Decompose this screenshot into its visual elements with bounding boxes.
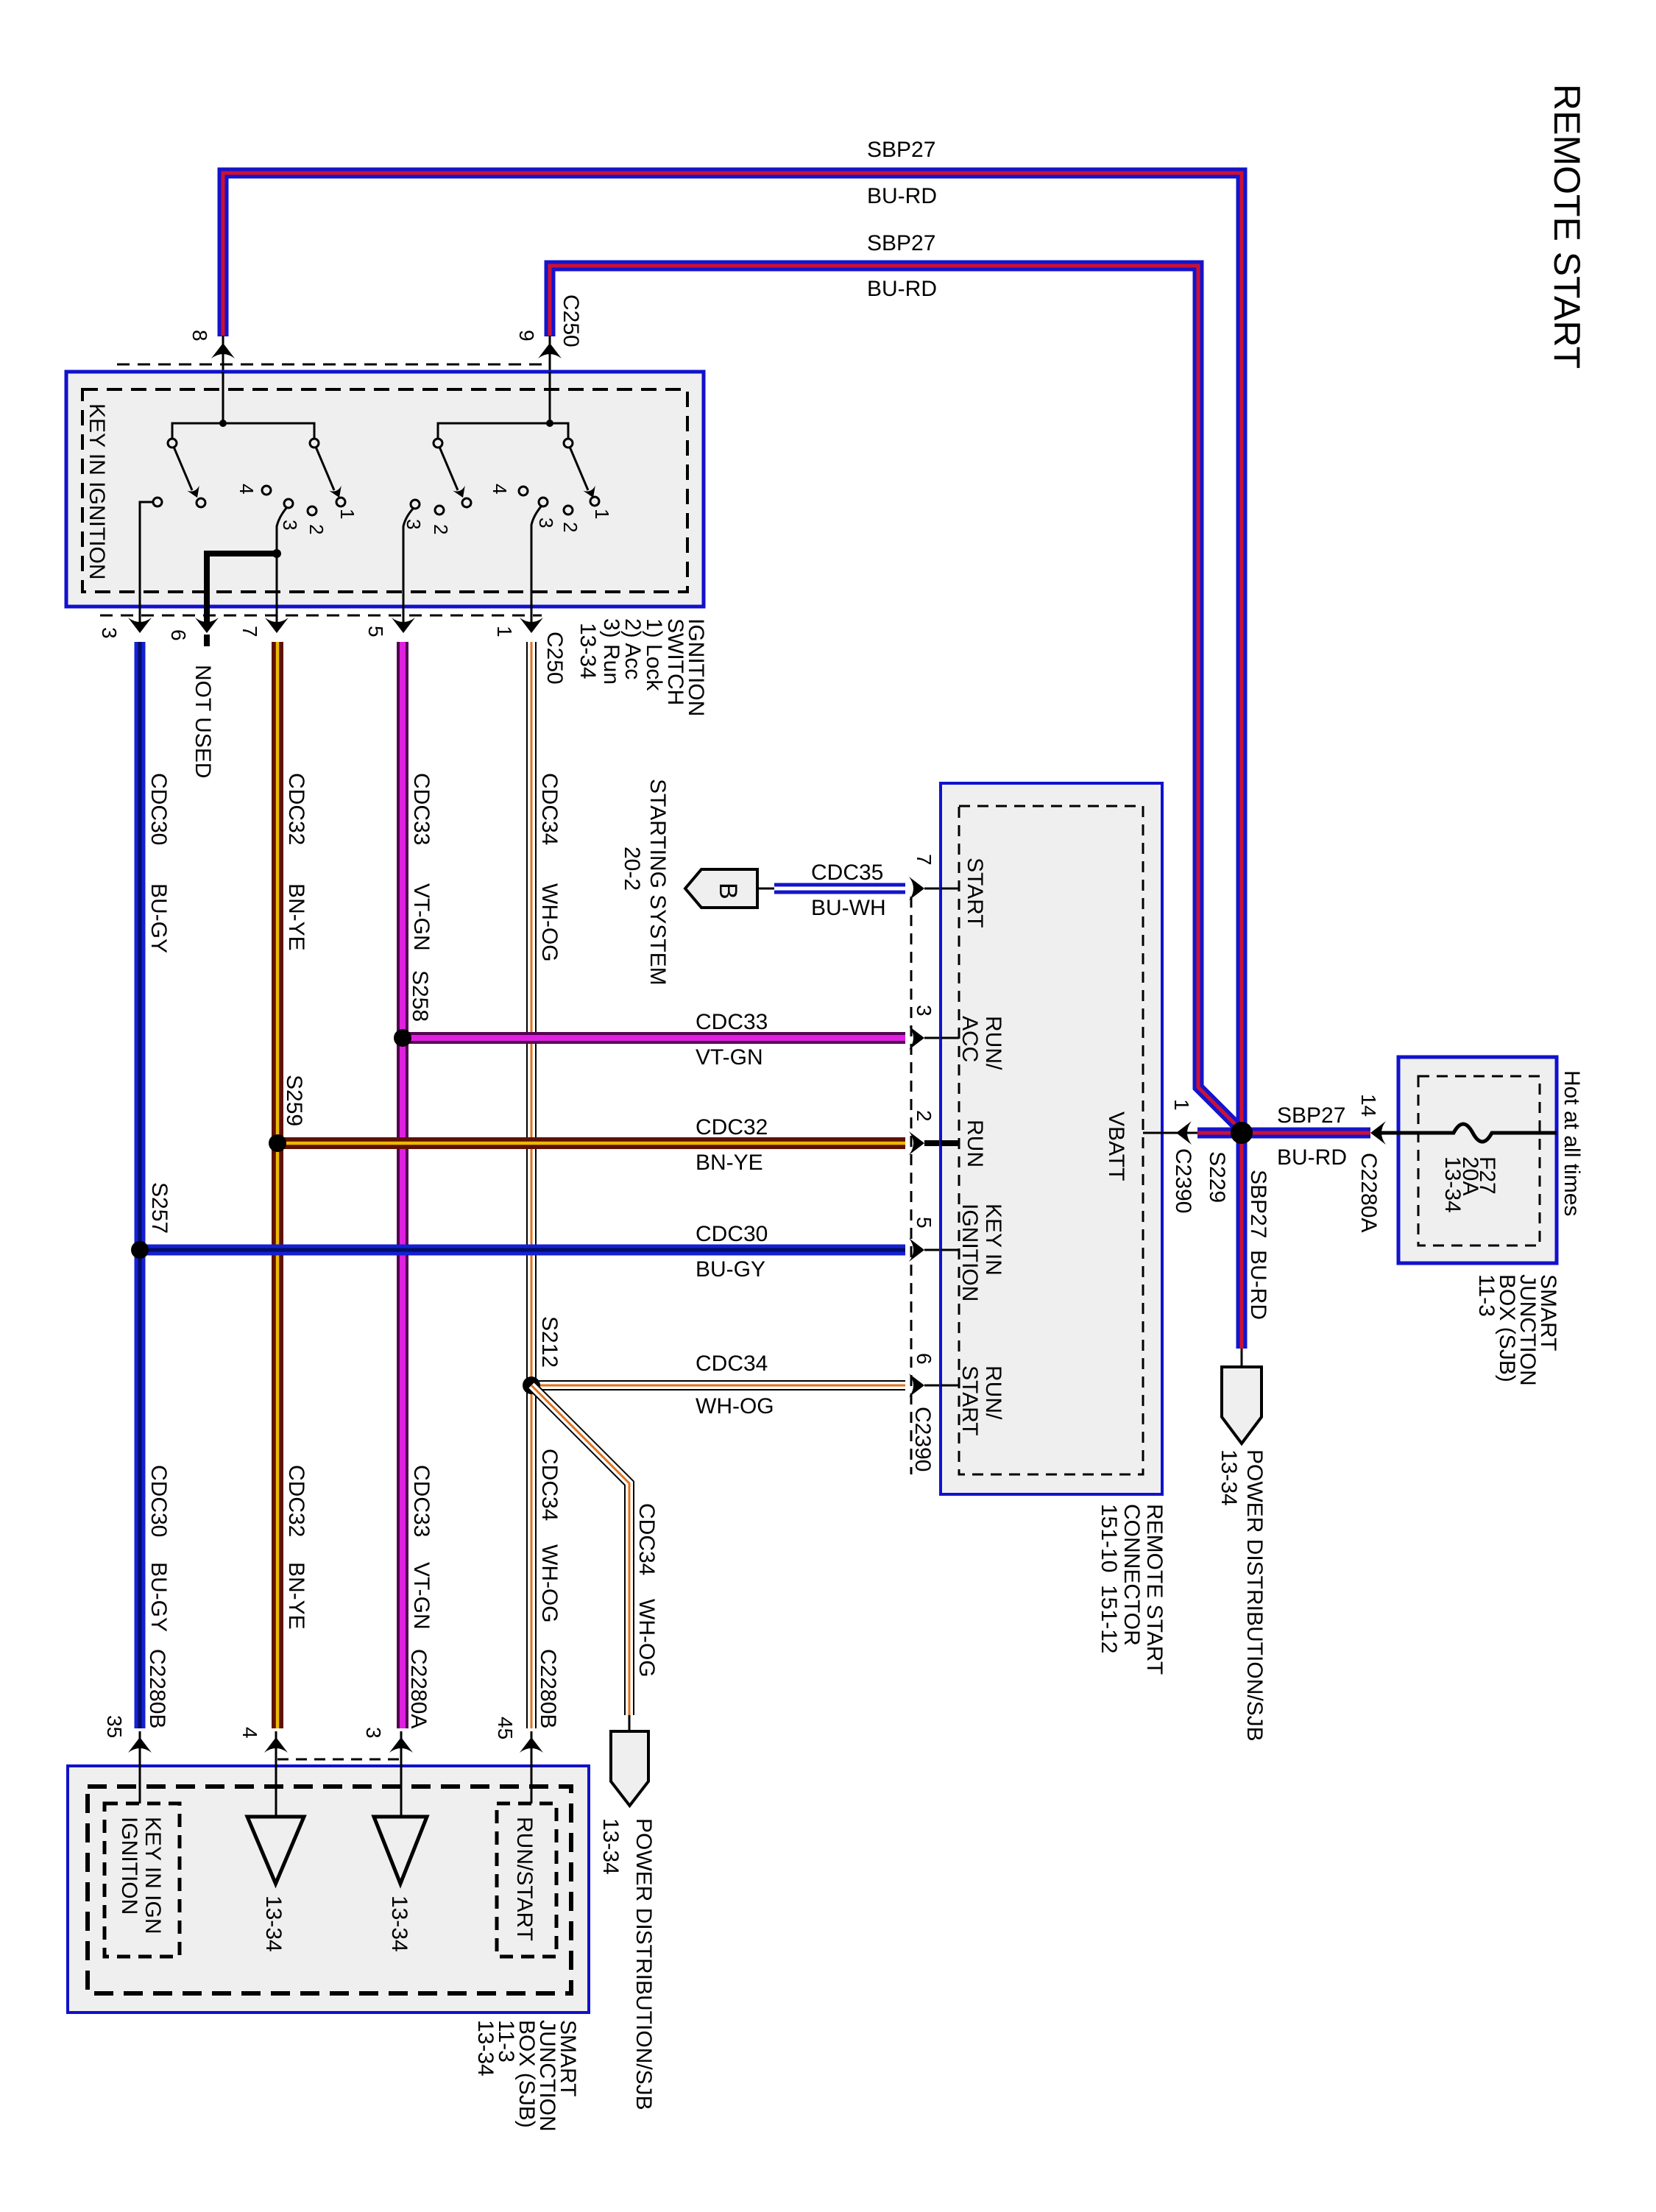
svg-text:S229: S229 — [1205, 1151, 1229, 1203]
svg-text:2: 2 — [430, 524, 452, 534]
svg-text:S212: S212 — [537, 1316, 562, 1368]
svg-text:S257: S257 — [147, 1182, 171, 1234]
svg-text:14: 14 — [1357, 1094, 1380, 1117]
pin 45 lead — [531, 1731, 533, 1803]
svg-text:KEY IN IGNITION: KEY IN IGNITION — [85, 403, 109, 580]
pin 6 arrow — [195, 618, 219, 633]
svg-text:CDC32: CDC32 — [284, 1465, 308, 1537]
pin 3 lead — [924, 1037, 959, 1039]
svg-text:7: 7 — [238, 626, 261, 637]
svg-text:S258: S258 — [408, 970, 432, 1022]
svg-text:S259: S259 — [282, 1075, 306, 1126]
svg-text:BU-GY: BU-GY — [696, 1257, 765, 1282]
svg-text:4: 4 — [489, 484, 511, 494]
splice S257 — [131, 1241, 149, 1259]
svg-text:CDC32: CDC32 — [284, 773, 308, 845]
svg-text:BU-GY: BU-GY — [146, 883, 171, 953]
pin 9 lead (inside box) — [549, 372, 551, 423]
bus 1 tap node — [219, 420, 227, 427]
NOT USED thick wire — [207, 554, 277, 628]
wire CDC35 BU-WH — [774, 883, 905, 894]
KEY IN IGN sub-box — [105, 1803, 180, 1957]
pin 5 arrow (connector) — [909, 1238, 924, 1262]
pin 3 lead (bottom) — [400, 1731, 403, 1817]
wire CDC30 horizontal — [140, 1245, 905, 1256]
svg-text:13-34: 13-34 — [598, 1818, 623, 1875]
pin 8 lead — [222, 336, 224, 423]
svg-text:3: 3 — [279, 520, 301, 530]
svg-text:C250: C250 — [542, 632, 567, 685]
svg-text:CDC34: CDC34 — [696, 1351, 768, 1376]
svg-text:REMOTE START: REMOTE START — [1142, 1504, 1167, 1675]
pin 6 arrow (connector) — [909, 1374, 924, 1397]
svg-text:START: START — [963, 858, 987, 928]
svg-text:5: 5 — [913, 1217, 935, 1229]
wafer 3 pivot — [434, 439, 442, 448]
svg-text:BN-YE: BN-YE — [284, 1562, 308, 1630]
svg-text:ACC: ACC — [958, 1016, 982, 1062]
svg-text:1: 1 — [591, 509, 613, 519]
splice S229 — [1231, 1122, 1253, 1144]
svg-text:7: 7 — [913, 854, 935, 866]
connector B flag — [685, 869, 757, 908]
svg-text:13-34: 13-34 — [576, 623, 600, 679]
wafer 4 contact 4 — [519, 487, 528, 495]
svg-text:KEY IN: KEY IN — [981, 1204, 1005, 1276]
svg-text:C2280A: C2280A — [1356, 1153, 1381, 1232]
connector C250 dashed line (top) — [117, 364, 542, 366]
svg-text:VBATT: VBATT — [1104, 1112, 1128, 1181]
svg-text:CDC34: CDC34 — [537, 1449, 562, 1521]
wire CDC32 BN-YE vertical — [272, 642, 283, 1728]
wafer 4 contact-3 wire to pin 1 — [531, 506, 542, 632]
svg-text:C2390: C2390 — [910, 1407, 935, 1471]
VBATT lead — [1143, 1132, 1200, 1134]
wire CDC34 WH-OG vertical — [526, 642, 537, 1728]
pin 3 arrow (connector) — [909, 1026, 924, 1050]
svg-text:BU-RD: BU-RD — [867, 184, 937, 208]
switch bus 2 — [438, 423, 568, 443]
wafer 2 blade arrow — [329, 486, 345, 501]
remote start connector inner dashed box — [959, 806, 1143, 1474]
svg-text:WH-OG: WH-OG — [537, 1544, 562, 1623]
wire CDC34 horizontal — [531, 1380, 905, 1391]
triangle 13-34 (2) — [374, 1817, 427, 1884]
svg-text:13-34: 13-34 — [1440, 1156, 1465, 1213]
remote start connector box — [941, 783, 1162, 1494]
svg-text:BN-YE: BN-YE — [696, 1151, 763, 1175]
svg-text:WH-OG: WH-OG — [537, 883, 562, 962]
wafer 2 contact-3 wire — [277, 507, 287, 554]
connector dashed line (ignition bottom) — [100, 615, 542, 617]
RUN/START sub-box — [497, 1803, 556, 1957]
svg-text:35: 35 — [103, 1715, 126, 1738]
pin 35 arrow — [128, 1737, 152, 1753]
svg-text:NOT USED: NOT USED — [191, 665, 215, 778]
svg-text:RUN/START: RUN/START — [512, 1817, 537, 1941]
B flag lead — [757, 888, 774, 890]
svg-text:3: 3 — [913, 1005, 935, 1017]
wafer 3 blade — [439, 447, 458, 490]
svg-text:RUN: RUN — [963, 1120, 987, 1167]
wafer 1 blade — [174, 447, 192, 490]
pin 8 arrow — [211, 343, 235, 358]
pin 3 arrow — [128, 618, 152, 633]
wire CDC30 BU-GY vertical — [135, 642, 146, 1728]
pin 8 lead (inside box) — [222, 372, 224, 423]
wire SBP27 left of S229 — [1197, 1128, 1242, 1139]
pin lead stubs inside connector — [941, 888, 959, 1385]
svg-text:VT-GN: VT-GN — [696, 1045, 763, 1070]
pin 6 lead — [924, 1385, 959, 1387]
pin 7 lead — [924, 888, 959, 890]
svg-text:CDC30: CDC30 — [146, 1465, 171, 1537]
svg-text:13-34: 13-34 — [473, 2020, 498, 2077]
wafer 4 contact 2 — [564, 506, 573, 515]
svg-text:RUN/: RUN/ — [981, 1365, 1005, 1420]
svg-text:4: 4 — [236, 484, 258, 494]
svg-text:IGNITION: IGNITION — [117, 1817, 141, 1915]
svg-text:CDC35: CDC35 — [811, 861, 883, 885]
dashed segment pins 4-3 — [277, 1759, 401, 1761]
svg-text:6: 6 — [167, 629, 190, 641]
svg-text:3: 3 — [98, 627, 121, 639]
svg-text:1: 1 — [336, 509, 358, 519]
svg-text:4: 4 — [238, 1727, 261, 1739]
SJB right inner dashed box — [1418, 1076, 1540, 1245]
pin 9 arrow — [538, 343, 562, 358]
svg-text:BU-WH: BU-WH — [811, 896, 886, 920]
svg-text:POWER DISTRIBUTION/SJB: POWER DISTRIBUTION/SJB — [631, 1818, 656, 2110]
pin 14 arrow — [1370, 1121, 1386, 1145]
svg-text:3) Run: 3) Run — [599, 618, 623, 685]
svg-text:8: 8 — [188, 330, 211, 342]
wafer 2 blade — [316, 447, 334, 490]
wire CDC33 VT-GN vertical — [397, 642, 408, 1728]
svg-text:CONNECTOR: CONNECTOR — [1119, 1504, 1144, 1646]
SJB bottom inner heavy dashed box — [88, 1787, 571, 1993]
svg-text:BU-RD: BU-RD — [1277, 1145, 1347, 1170]
svg-text:C2280B: C2280B — [536, 1649, 560, 1728]
svg-text:C2390: C2390 — [1171, 1148, 1195, 1213]
svg-text:IGNITION: IGNITION — [958, 1204, 982, 1301]
wafer 1 output wire to pin 3 — [140, 502, 153, 632]
svg-text:20-2: 20-2 — [620, 847, 644, 891]
splice S212 — [523, 1377, 540, 1394]
wafer 2 contact 3 — [284, 499, 293, 508]
svg-text:C2280B: C2280B — [145, 1649, 169, 1728]
svg-text:REMOTE START: REMOTE START — [1546, 84, 1588, 369]
svg-text:151-10 151-12: 151-10 151-12 — [1097, 1504, 1121, 1654]
svg-text:BU-RD: BU-RD — [867, 277, 937, 301]
svg-text:1: 1 — [1170, 1099, 1193, 1111]
svg-text:CDC33: CDC33 — [409, 1465, 434, 1537]
svg-text:CDC30: CDC30 — [696, 1222, 768, 1246]
svg-text:2: 2 — [559, 522, 581, 532]
pin 2 lead — [924, 1140, 959, 1146]
svg-text:POWER DISTRIBUTION/SJB: POWER DISTRIBUTION/SJB — [1242, 1449, 1267, 1742]
svg-text:13-34: 13-34 — [1217, 1449, 1241, 1506]
pin 7 wire from junction — [276, 554, 278, 632]
pentagon power distribution (diagonal branch) — [629, 1715, 631, 1731]
pin 1 arrow — [520, 618, 543, 633]
pin 2 arrow (connector) — [909, 1131, 924, 1155]
wafer 4 pivot — [564, 439, 573, 448]
svg-text:C250: C250 — [559, 294, 583, 347]
wafer 1 pivot — [168, 439, 177, 448]
ignition switch inner dashed box — [82, 389, 687, 592]
wafer 2 pivot — [310, 439, 319, 448]
svg-text:CDC30: CDC30 — [146, 773, 171, 845]
wafer 3 contact 3 — [411, 500, 420, 509]
wafer 4 blade — [570, 447, 588, 490]
svg-text:START: START — [958, 1365, 982, 1436]
fuse feed line with fuse F27 — [1379, 1124, 1557, 1142]
svg-text:SBP27: SBP27 — [1246, 1170, 1270, 1238]
svg-text:CDC32: CDC32 — [696, 1115, 768, 1139]
svg-text:2: 2 — [305, 524, 328, 534]
svg-text:BN-YE: BN-YE — [284, 883, 308, 951]
wire SBP27 BU-RD (pin 9 run) — [550, 266, 1242, 1131]
smart junction box (right) — [1398, 1057, 1557, 1263]
switch bus 1 — [172, 423, 314, 443]
pentagon power distribution (S229) — [1241, 1349, 1243, 1367]
wire SBP27 right of S229 — [1242, 1128, 1370, 1139]
wire SBP27 BU-RD (pin 8 run) — [223, 173, 1242, 1349]
svg-text:STARTING SYSTEM: STARTING SYSTEM — [645, 779, 670, 986]
smart junction box (bottom) — [68, 1766, 589, 2013]
pin 7 arrow (connector) — [909, 877, 924, 900]
wafer 4 contact 1 — [590, 497, 599, 506]
svg-text:KEY IN IGN: KEY IN IGN — [141, 1817, 165, 1934]
svg-text:1: 1 — [493, 626, 516, 637]
wafer 1 blade arrow — [187, 486, 203, 501]
wire CDC32 horizontal — [277, 1137, 905, 1149]
splice S259 — [269, 1134, 286, 1152]
svg-text:CDC34: CDC34 — [634, 1503, 659, 1575]
wafer 3 pointed contact — [462, 498, 471, 507]
svg-text:2: 2 — [913, 1110, 935, 1122]
wire CDC33 horizontal — [403, 1032, 905, 1044]
svg-text:C2280A: C2280A — [406, 1649, 431, 1728]
svg-text:5: 5 — [364, 626, 387, 637]
pin 35 lead — [139, 1731, 141, 1803]
svg-text:3: 3 — [362, 1727, 385, 1739]
wafer 4 blade arrow — [583, 486, 599, 501]
wafer 3 contact 2 — [435, 506, 444, 515]
svg-text:13-34: 13-34 — [387, 1895, 411, 1952]
wafer 2 contact 2 — [308, 506, 316, 515]
wafer 3 blade arrow — [453, 486, 469, 501]
svg-text:SBP27: SBP27 — [867, 138, 935, 162]
wafer 1 pointed contact — [197, 498, 205, 507]
svg-text:Hot at all times: Hot at all times — [1560, 1070, 1584, 1216]
pin 5 lead — [924, 1249, 959, 1251]
NOT USED stub — [204, 635, 210, 646]
svg-text:45: 45 — [494, 1717, 517, 1739]
pin 3 arrow (bottom) — [389, 1737, 413, 1753]
pin 9 lead — [549, 336, 551, 423]
pin 4 arrow — [264, 1737, 288, 1753]
svg-text:CDC33: CDC33 — [409, 773, 434, 845]
connector C2390 dashed line (left) — [910, 897, 913, 1474]
wafer 4 contact 3 — [539, 498, 548, 506]
bus 2 tap node — [546, 420, 553, 427]
pin 5 arrow — [392, 618, 415, 633]
svg-text:BU-GY: BU-GY — [146, 1562, 171, 1632]
svg-text:VT-GN: VT-GN — [409, 1562, 434, 1630]
NOT USED junction node — [272, 549, 281, 558]
triangle 13-34 (1) — [247, 1817, 304, 1884]
pin 45 arrow — [520, 1737, 543, 1753]
pin 4 lead — [275, 1731, 277, 1817]
wire CDC34 diagonal branch — [531, 1385, 629, 1715]
svg-text:11-3: 11-3 — [1474, 1274, 1498, 1317]
wafer 2 contact 4 — [262, 486, 271, 495]
svg-text:VT-GN: VT-GN — [409, 883, 434, 951]
svg-text:CDC33: CDC33 — [696, 1010, 768, 1034]
svg-text:WH-OG: WH-OG — [634, 1599, 659, 1678]
svg-text:B: B — [714, 883, 742, 900]
svg-text:SBP27: SBP27 — [867, 231, 935, 255]
splice S258 — [394, 1029, 411, 1047]
svg-text:RUN/: RUN/ — [981, 1016, 1005, 1070]
svg-text:13-34: 13-34 — [261, 1895, 286, 1952]
svg-text:3: 3 — [535, 517, 557, 528]
VBATT arrow pin 1 — [1176, 1121, 1192, 1145]
svg-text:WH-OG: WH-OG — [696, 1394, 774, 1418]
svg-text:9: 9 — [515, 330, 538, 342]
svg-text:BU-RD: BU-RD — [1246, 1250, 1270, 1320]
wafer 2 contact 1 — [336, 498, 345, 506]
svg-text:CDC34: CDC34 — [537, 773, 562, 845]
wafer 1 output contact — [153, 498, 162, 506]
ignition switch box — [66, 372, 704, 607]
svg-text:6: 6 — [913, 1353, 935, 1365]
svg-text:SBP27: SBP27 — [1277, 1103, 1345, 1128]
pin 7 arrow — [265, 618, 289, 633]
wafer 3 contact-3 wire to pin 5 — [403, 508, 414, 632]
